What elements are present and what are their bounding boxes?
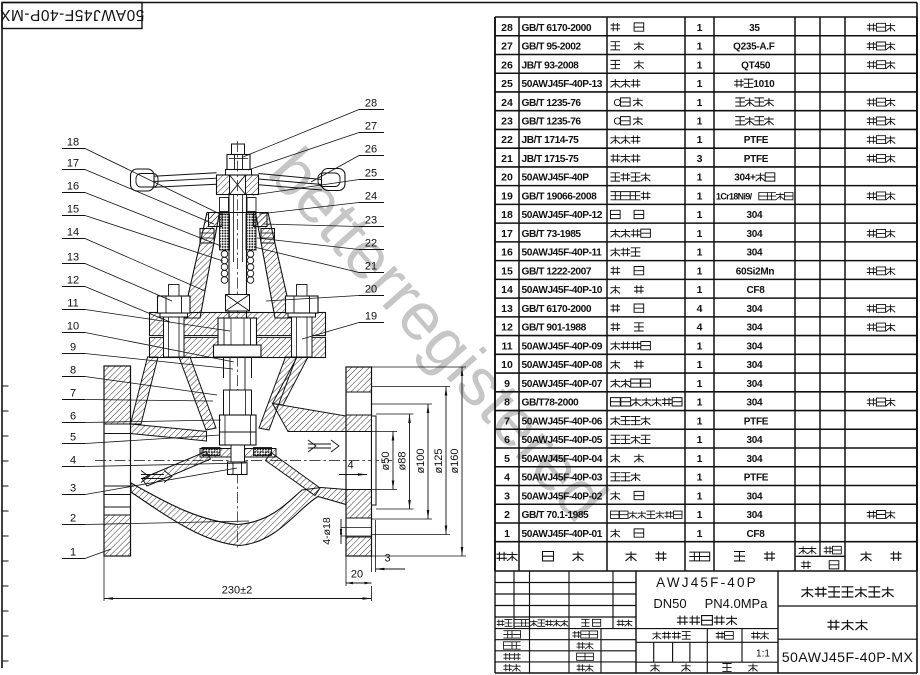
svg-text:1: 1: [697, 359, 703, 371]
svg-text:25: 25: [501, 78, 513, 90]
svg-text:4: 4: [504, 472, 510, 484]
left pipe bore lines: [104, 433, 131, 435]
stem coupling (11): [218, 318, 257, 345]
svg-text:JB/T 93-2008: JB/T 93-2008: [522, 60, 580, 71]
svg-text:20: 20: [501, 172, 513, 184]
svg-text:10: 10: [67, 321, 79, 333]
svg-text:304: 304: [746, 229, 763, 240]
handwheel nut (28/27): [226, 170, 252, 176]
svg-text:15: 15: [501, 265, 513, 277]
svg-text:1:1: 1:1: [756, 649, 770, 660]
svg-text:2: 2: [70, 513, 76, 525]
svg-text:1: 1: [697, 59, 703, 71]
svg-text:1010: 1010: [753, 79, 775, 90]
svg-text:18: 18: [67, 137, 79, 149]
svg-text:GB/T 6170-2000: GB/T 6170-2000: [522, 23, 592, 34]
svg-text:304+: 304+: [734, 173, 756, 184]
svg-text:50AWJ45F-40P-MX: 50AWJ45F-40P-MX: [782, 650, 914, 666]
svg-text:5: 5: [70, 432, 76, 444]
svg-text:PTFE: PTFE: [744, 154, 769, 165]
svg-text:8: 8: [70, 365, 76, 377]
BOM table grid: [495, 16, 917, 18]
partition wall left: [142, 452, 211, 487]
svg-text:GB/T 70.1-1985: GB/T 70.1-1985: [522, 510, 590, 521]
svg-text:ø88: ø88: [397, 452, 409, 471]
svg-text:1: 1: [697, 247, 703, 259]
svg-text:DN50: DN50: [653, 596, 686, 611]
valve vertical centerline: [237, 141, 239, 549]
svg-text:60Si2Mn: 60Si2Mn: [736, 266, 775, 277]
svg-text:24: 24: [501, 97, 513, 109]
svg-text:20: 20: [365, 284, 377, 296]
svg-text:1: 1: [697, 134, 703, 146]
svg-text:8: 8: [504, 397, 510, 409]
handwheel left grip: [131, 169, 155, 191]
handwheel left arm (26): [154, 173, 217, 177]
svg-text:35: 35: [749, 23, 760, 34]
svg-text:4: 4: [70, 455, 76, 467]
svg-text:GB/T 1235-76: GB/T 1235-76: [522, 117, 582, 128]
svg-text:14: 14: [501, 284, 513, 296]
svg-text:50AWJ45F-40P-10: 50AWJ45F-40P-10: [522, 285, 603, 296]
svg-text:26: 26: [365, 144, 377, 156]
svg-text:1: 1: [697, 415, 703, 427]
svg-text:GB/T78-2000: GB/T78-2000: [522, 398, 580, 409]
svg-text:304: 304: [746, 379, 763, 390]
svg-text:1: 1: [697, 41, 703, 53]
svg-text:1: 1: [697, 528, 703, 540]
svg-text:10: 10: [501, 359, 513, 371]
svg-text:304: 304: [746, 248, 763, 259]
svg-text:GB/T 19066-2008: GB/T 19066-2008: [522, 191, 598, 202]
svg-text:2: 2: [504, 509, 510, 521]
svg-text:13: 13: [67, 252, 79, 264]
svg-text:304: 304: [746, 210, 763, 221]
handwheel right grip: [322, 169, 346, 191]
bottom bowl shell: [131, 483, 346, 546]
svg-text:1: 1: [70, 547, 76, 559]
svg-text:PTFE: PTFE: [744, 473, 769, 484]
svg-text:CF8: CF8: [746, 529, 765, 540]
svg-text:1: 1: [697, 340, 703, 352]
svg-text:1: 1: [697, 490, 703, 502]
svg-text:50AWJ45F-40P-06: 50AWJ45F-40P-06: [522, 416, 603, 427]
svg-text:PTFE: PTFE: [744, 416, 769, 427]
svg-text:21: 21: [365, 261, 377, 273]
svg-text:11: 11: [501, 340, 512, 352]
gland lugs + bolts: [200, 229, 214, 244]
handwheel right arm: [259, 174, 323, 180]
svg-text:1: 1: [697, 397, 703, 409]
stud bolt right: [292, 317, 313, 357]
svg-text:1: 1: [697, 472, 703, 484]
svg-text:16: 16: [67, 181, 79, 193]
svg-text:1: 1: [697, 78, 703, 90]
body shoulder right + outlet top wall: [273, 357, 309, 405]
svg-text:1: 1: [697, 172, 703, 184]
svg-text:ø160: ø160: [449, 448, 461, 473]
svg-text:GB/T 1222-2007: GB/T 1222-2007: [522, 266, 592, 277]
left border ruler ticks: [2, 385, 9, 387]
svg-text:9: 9: [504, 378, 510, 390]
svg-text:1: 1: [697, 378, 703, 390]
svg-text:14: 14: [67, 227, 79, 239]
svg-text:1: 1: [504, 528, 510, 540]
svg-text:304: 304: [746, 435, 763, 446]
svg-text:304: 304: [746, 454, 763, 465]
svg-text:6: 6: [70, 411, 76, 423]
svg-text:230±2: 230±2: [222, 585, 253, 597]
svg-text:GB/T 73-1985: GB/T 73-1985: [522, 229, 582, 240]
disc (5): [220, 415, 257, 445]
svg-text:28: 28: [365, 98, 377, 110]
svg-text:50AWJ45F-40P-02: 50AWJ45F-40P-02: [522, 491, 603, 502]
svg-text:5: 5: [504, 453, 510, 465]
svg-text:25: 25: [365, 168, 377, 180]
svg-text:AWJ45F-40P: AWJ45F-40P: [656, 575, 758, 590]
svg-text:17: 17: [67, 158, 79, 170]
svg-text:50AWJ45F-40P-MX: 50AWJ45F-40P-MX: [0, 6, 144, 23]
svg-text:23: 23: [501, 116, 513, 128]
svg-text:50AWJ45F-40P-12: 50AWJ45F-40P-12: [522, 210, 603, 221]
packing gland top plates (18/17): [209, 213, 223, 227]
lower stem: [223, 357, 225, 378]
svg-text:12: 12: [67, 275, 79, 287]
svg-text:304: 304: [746, 510, 763, 521]
svg-text:50AWJ45F-40P-03: 50AWJ45F-40P-03: [522, 473, 603, 484]
dimension lines (diameters): [372, 431, 398, 433]
svg-text:1: 1: [697, 453, 703, 465]
svg-text:50AWJ45F-40P-05: 50AWJ45F-40P-05: [522, 435, 603, 446]
svg-text:50AWJ45F-40P-09: 50AWJ45F-40P-09: [522, 341, 603, 352]
svg-text:QT450: QT450: [741, 60, 771, 71]
BOM header row: [497, 552, 518, 561]
handwheel center block: [217, 175, 259, 195]
bonnet flange plates + gasket (19): [150, 313, 326, 336]
raised face: [372, 416, 377, 505]
svg-text:1: 1: [697, 116, 703, 128]
svg-text:ø50: ø50: [380, 452, 392, 471]
pipe horizontal centerline: [95, 460, 392, 462]
svg-text:PN4.0MPa: PN4.0MPa: [705, 596, 769, 611]
svg-text:1: 1: [697, 22, 703, 34]
svg-text:19: 19: [501, 190, 513, 202]
svg-text:ø125: ø125: [433, 448, 445, 473]
svg-text:50AWJ45F-40P-01: 50AWJ45F-40P-01: [522, 529, 603, 540]
body shoulder left: [131, 357, 159, 424]
svg-text:1: 1: [697, 265, 703, 277]
svg-text:11: 11: [67, 298, 78, 310]
svg-text:GB/T 95-2002: GB/T 95-2002: [522, 42, 582, 53]
svg-text:1: 1: [697, 97, 703, 109]
svg-text:24: 24: [365, 191, 377, 203]
svg-text:16: 16: [501, 247, 513, 259]
svg-text:27: 27: [501, 41, 513, 53]
svg-text:4: 4: [697, 303, 703, 315]
svg-text:PTFE: PTFE: [744, 135, 769, 146]
inlet top wall: [131, 424, 207, 441]
watermark: [255, 134, 622, 535]
svg-text:304: 304: [746, 323, 763, 334]
svg-text:4: 4: [347, 460, 353, 472]
svg-text:CF8: CF8: [746, 285, 765, 296]
seat bridge: [200, 449, 276, 458]
svg-text:12: 12: [501, 322, 513, 334]
svg-text:GB/T 1235-76: GB/T 1235-76: [522, 98, 582, 109]
svg-text:1: 1: [697, 228, 703, 240]
partition wall right: [266, 453, 321, 496]
packing rings (22/21): [220, 214, 230, 250]
disc tail + nut (9/3): [231, 445, 245, 462]
svg-text:9: 9: [70, 342, 76, 354]
positioning sleeve (25): [220, 198, 229, 212]
svg-text:21: 21: [501, 153, 513, 165]
svg-text:22: 22: [365, 238, 377, 250]
svg-text:GB/T 901-1988: GB/T 901-1988: [522, 323, 587, 334]
svg-text:20: 20: [351, 569, 363, 581]
top-left title box: [2, 3, 142, 29]
svg-text:3: 3: [697, 153, 703, 165]
svg-text:1: 1: [697, 434, 703, 446]
flow arrow right: [308, 443, 331, 445]
flow arrow left: [141, 474, 164, 476]
spring coils (15): [221, 251, 228, 258]
svg-text:1Cr18Ni9/: 1Cr18Ni9/: [716, 191, 753, 201]
svg-text:19: 19: [365, 311, 377, 323]
svg-text:28: 28: [501, 22, 513, 34]
svg-text:15: 15: [67, 204, 79, 216]
svg-text:1: 1: [697, 284, 703, 296]
yoke bushing with cross: [226, 295, 250, 312]
dim 4-ø18 bolt holes: [321, 517, 333, 545]
svg-text:7: 7: [70, 388, 76, 400]
disc holder block: [224, 390, 252, 415]
title block texts: [497, 620, 513, 627]
stud bolt left (12/13): [164, 317, 185, 357]
svg-text:23: 23: [365, 215, 377, 227]
svg-text:26: 26: [501, 59, 513, 71]
svg-text:1: 1: [697, 190, 703, 202]
left inlet flange (1): [104, 366, 131, 556]
svg-text:7: 7: [504, 415, 510, 427]
svg-text:304: 304: [746, 360, 763, 371]
svg-text:304: 304: [746, 304, 763, 315]
svg-text:6: 6: [504, 434, 510, 446]
svg-text:Q235-A.F: Q235-A.F: [733, 42, 775, 53]
body neck walls: [179, 357, 216, 430]
svg-text:304: 304: [746, 341, 763, 352]
svg-text:27: 27: [365, 121, 377, 133]
svg-text:18: 18: [501, 209, 513, 221]
svg-text:1: 1: [697, 209, 703, 221]
svg-text:JB/T 1714-75: JB/T 1714-75: [522, 135, 580, 146]
svg-text:4: 4: [697, 322, 703, 334]
svg-text:4-ø18: 4-ø18: [321, 517, 333, 545]
seat gaskets (20): [202, 448, 220, 456]
svg-text:22: 22: [501, 134, 513, 146]
svg-text:50AWJ45F-40P-08: 50AWJ45F-40P-08: [522, 360, 603, 371]
handwheel nut cap: [232, 144, 245, 155]
svg-text:304: 304: [746, 491, 763, 502]
svg-text:13: 13: [501, 303, 513, 315]
svg-text:JB/T 1715-75: JB/T 1715-75: [522, 154, 580, 165]
svg-text:50AWJ45F-40P-07: 50AWJ45F-40P-07: [522, 379, 603, 390]
svg-text:3: 3: [384, 553, 390, 565]
bonnet yoke (14): [183, 213, 220, 319]
svg-text:50AWJ45F-40P-04: 50AWJ45F-40P-04: [522, 454, 603, 465]
stem (10): [228, 195, 230, 319]
svg-text:304: 304: [746, 398, 763, 409]
svg-text:GB/T 6170-2000: GB/T 6170-2000: [522, 304, 592, 315]
svg-text:17: 17: [501, 228, 513, 240]
svg-text:1: 1: [697, 509, 703, 521]
svg-text:50AWJ45F-40P: 50AWJ45F-40P: [522, 173, 590, 184]
svg-text:ø100: ø100: [415, 448, 427, 473]
title block grid: [495, 672, 917, 674]
svg-text:50AWJ45F-40P-11: 50AWJ45F-40P-11: [522, 248, 603, 259]
right outlet flange: [346, 367, 372, 556]
svg-text:3: 3: [70, 483, 76, 495]
sheet border frame: [2, 2, 917, 4]
svg-text:50AWJ45F-40P-13: 50AWJ45F-40P-13: [522, 79, 603, 90]
svg-text:3: 3: [504, 490, 510, 502]
